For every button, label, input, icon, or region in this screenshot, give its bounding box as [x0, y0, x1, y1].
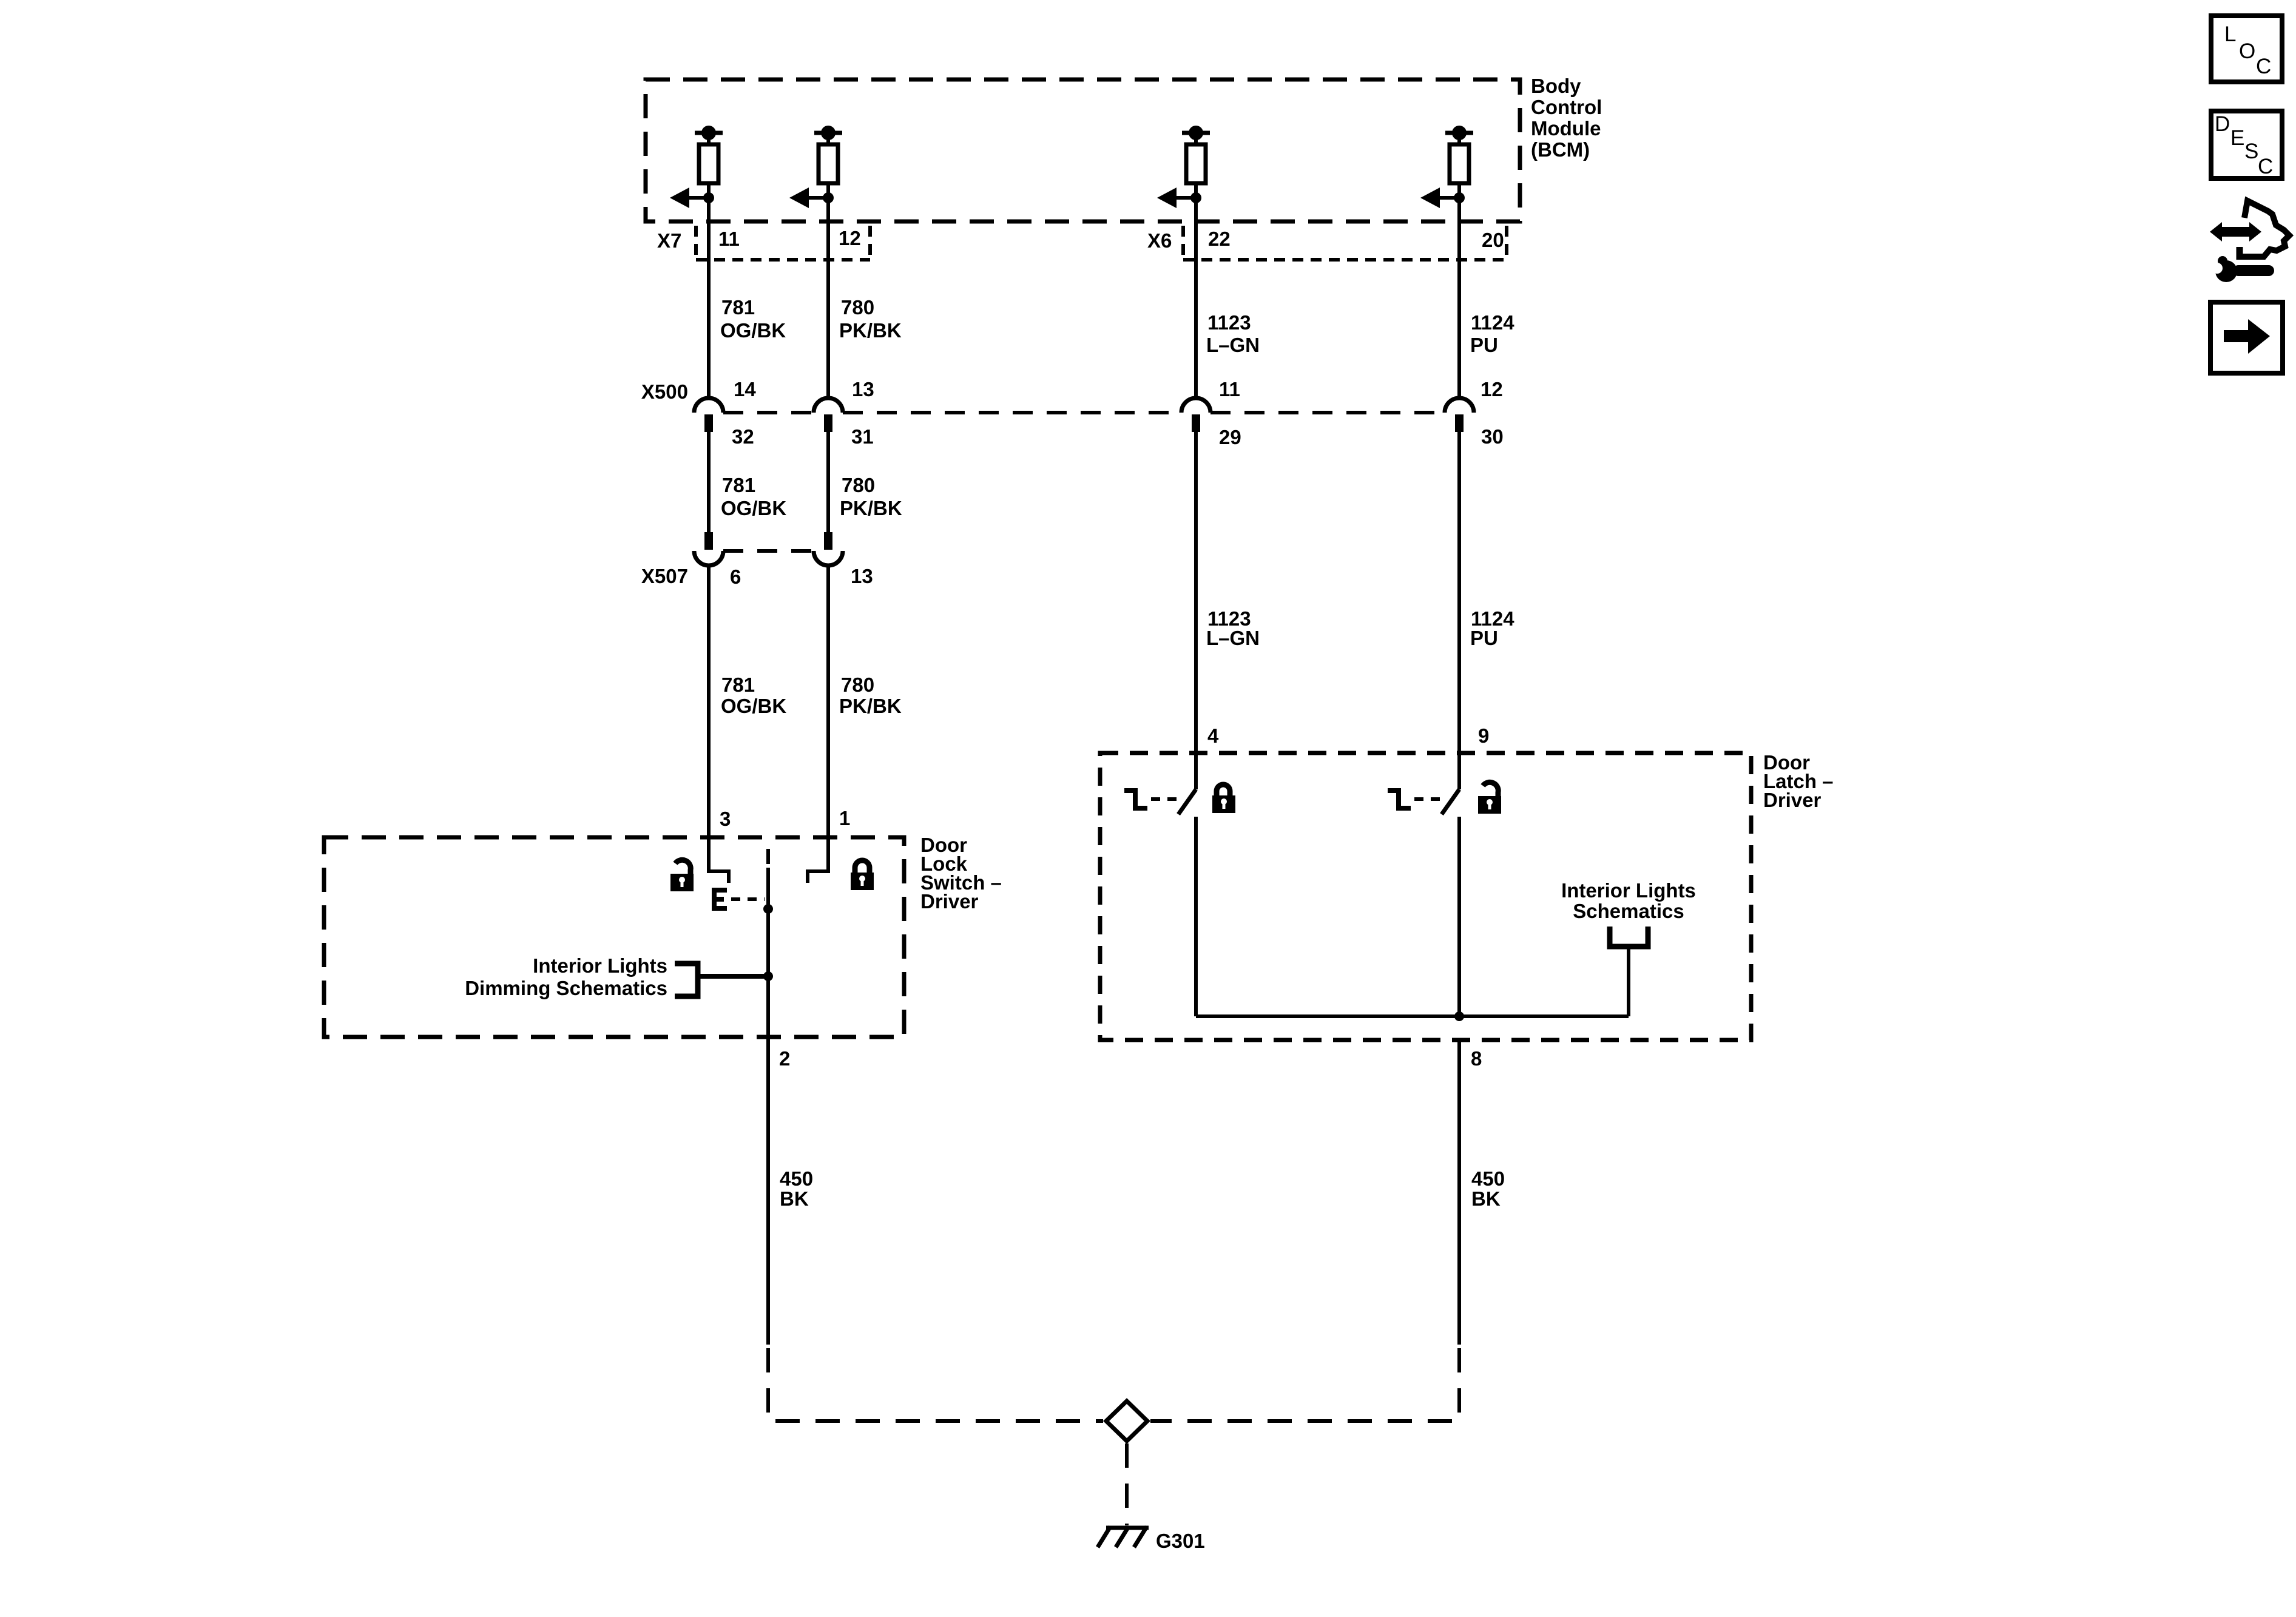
- svg-text:Driver: Driver: [1763, 789, 1822, 811]
- svg-text:14: 14: [734, 378, 756, 400]
- svg-text:Driver: Driver: [920, 890, 979, 913]
- svg-text:780: 780: [842, 474, 875, 496]
- svg-text:780: 780: [841, 673, 874, 696]
- svg-text:9: 9: [1478, 724, 1489, 747]
- svg-text:11: 11: [718, 228, 740, 250]
- svg-text:G301: G301: [1156, 1530, 1205, 1552]
- svg-text:S: S: [2244, 140, 2258, 163]
- svg-text:OG/BK: OG/BK: [721, 695, 786, 717]
- svg-text:Module: Module: [1531, 117, 1601, 140]
- svg-text:13: 13: [852, 378, 874, 400]
- svg-text:X6: X6: [1147, 229, 1172, 252]
- svg-text:Interior Lights: Interior Lights: [533, 954, 667, 977]
- svg-text:30: 30: [1481, 425, 1504, 448]
- svg-text:20: 20: [1482, 229, 1504, 251]
- svg-text:1: 1: [839, 807, 850, 829]
- svg-text:Body: Body: [1531, 75, 1581, 97]
- svg-text:L–GN: L–GN: [1206, 627, 1260, 649]
- svg-text:781: 781: [721, 296, 755, 319]
- svg-text:BK: BK: [780, 1187, 809, 1210]
- svg-text:22: 22: [1208, 228, 1231, 250]
- svg-text:1123: 1123: [1207, 311, 1251, 334]
- svg-text:X507: X507: [641, 565, 688, 587]
- svg-text:O: O: [2239, 39, 2255, 63]
- svg-text:PK/BK: PK/BK: [840, 497, 902, 519]
- svg-text:PK/BK: PK/BK: [839, 695, 902, 717]
- svg-text:12: 12: [839, 227, 861, 249]
- svg-text:450: 450: [780, 1167, 813, 1190]
- svg-text:3: 3: [720, 808, 731, 830]
- svg-text:X7: X7: [657, 229, 681, 252]
- svg-text:D: D: [2215, 112, 2230, 136]
- svg-text:Schematics: Schematics: [1573, 900, 1684, 922]
- svg-text:29: 29: [1219, 426, 1241, 448]
- svg-text:31: 31: [851, 425, 874, 448]
- svg-text:1124: 1124: [1471, 311, 1514, 334]
- svg-text:781: 781: [722, 474, 755, 496]
- svg-text:BK: BK: [1471, 1187, 1501, 1210]
- svg-text:6: 6: [730, 565, 741, 588]
- svg-text:C: C: [2256, 55, 2271, 78]
- svg-text:OG/BK: OG/BK: [720, 319, 786, 342]
- svg-text:32: 32: [732, 425, 754, 448]
- svg-text:12: 12: [1481, 378, 1503, 400]
- svg-text:L: L: [2224, 22, 2236, 46]
- svg-text:Control: Control: [1531, 96, 1602, 118]
- svg-text:780: 780: [841, 296, 874, 319]
- svg-text:PU: PU: [1470, 627, 1498, 649]
- svg-text:C: C: [2258, 155, 2273, 178]
- svg-text:Dimming Schematics: Dimming Schematics: [465, 977, 667, 999]
- svg-text:(BCM): (BCM): [1531, 138, 1590, 161]
- svg-text:11: 11: [1219, 378, 1240, 400]
- svg-text:4: 4: [1207, 724, 1219, 747]
- svg-text:PU: PU: [1470, 334, 1498, 356]
- svg-text:PK/BK: PK/BK: [839, 319, 902, 342]
- svg-text:8: 8: [1471, 1047, 1482, 1070]
- svg-text:2: 2: [779, 1047, 790, 1070]
- svg-text:781: 781: [721, 673, 755, 696]
- svg-text:L–GN: L–GN: [1206, 334, 1260, 356]
- svg-text:X500: X500: [641, 380, 688, 403]
- svg-text:450: 450: [1471, 1167, 1505, 1190]
- svg-text:13: 13: [851, 565, 873, 587]
- svg-text:OG/BK: OG/BK: [721, 497, 786, 519]
- svg-text:E: E: [2230, 126, 2244, 150]
- svg-text:Interior Lights: Interior Lights: [1561, 879, 1696, 902]
